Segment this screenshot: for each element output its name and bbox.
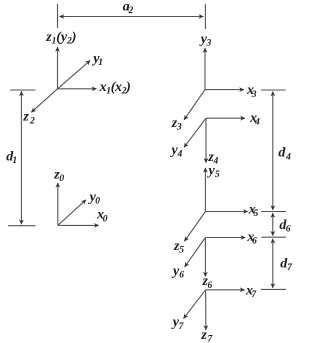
frame5 y5 axis [204,168,206,212]
dimension a2 tick right [204,4,206,29]
dimension d7 bar x6 [261,236,286,238]
frame6 z6 axis [204,238,206,277]
frame4 z4 axis [205,118,207,163]
dimension d6 bar x5 [261,211,286,213]
svg-text:z7: z7 [200,328,213,343]
svg-text:x6: x6 [246,230,257,247]
frame1 y1 axis [58,60,91,88]
frame1 z1 axis [57,47,59,89]
svg-text:y6: y6 [171,264,184,281]
dimension a2 line [60,16,204,18]
svg-text:d1: d1 [6,150,17,167]
dimension d6 line [272,213,274,236]
frame5 x5 axis [205,211,247,213]
svg-text:d6: d6 [279,218,290,235]
svg-text:x7: x7 [245,284,257,301]
svg-text:y1: y1 [91,51,103,68]
dimension d7 bottom bar [261,288,286,290]
svg-text:z5: z5 [173,239,184,256]
frame3 y3 axis [204,48,206,90]
dimension d4 top bar [261,89,286,91]
svg-text:y3: y3 [199,32,212,49]
frame4 y4 axis [184,118,206,147]
frame5 z5 axis [184,212,205,242]
svg-text:x3: x3 [246,83,257,100]
dimension a2 tick left [57,4,59,28]
svg-text:x0: x0 [96,208,108,225]
svg-text:a2: a2 [123,0,134,16]
frame0 z0 axis [57,183,59,226]
dimension d7 line [272,239,274,288]
svg-text:y7: y7 [171,315,185,332]
frame7 y7 axis [184,290,206,319]
frame7 z7 axis [205,290,207,330]
svg-text:x1(x2): x1(x2) [99,80,131,97]
svg-text:z2: z2 [22,110,35,127]
dimension d1 line [20,91,22,224]
frame4 x4 axis [206,117,245,119]
frame6 y6 axis [185,238,206,268]
svg-text:z6: z6 [202,274,213,291]
frame1 z2 axis [31,89,57,113]
svg-text:z3: z3 [171,116,182,133]
dimension d4 line [272,92,274,211]
svg-text:x4: x4 [249,111,260,128]
frame3 x3 axis [205,89,244,91]
svg-text:y4: y4 [170,143,183,160]
dimension d1 top bar [10,89,36,91]
frame7 x7 axis [206,289,245,291]
frame0 x0 axis [58,224,99,226]
svg-text:y0: y0 [88,190,101,207]
frame3 z3 axis [184,90,205,120]
frame0 y0 axis [58,200,86,226]
svg-text:d4: d4 [278,146,291,163]
svg-text:z0: z0 [53,168,64,185]
svg-text:z1(y2): z1(y2) [45,30,76,47]
dimension d1 bottom bar [8,225,36,227]
svg-text:x5: x5 [248,203,259,220]
frame6 x6 axis [205,237,245,239]
frame1 x1 axis [58,88,97,90]
svg-text:d7: d7 [280,256,293,273]
